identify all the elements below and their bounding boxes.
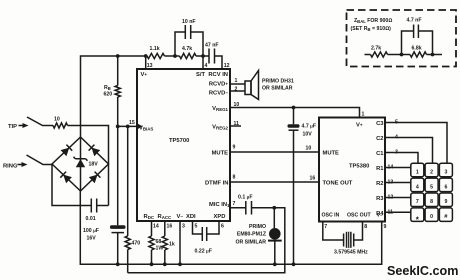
svg-text:RCV IN: RCV IN	[208, 72, 228, 78]
svg-text:MUTE: MUTE	[323, 151, 340, 157]
svg-text:2: 2	[430, 169, 433, 175]
node VREG1 4.7uF tap	[292, 106, 296, 110]
RING terminal label and arrow	[3, 162, 28, 170]
svg-text:MIC IN1: MIC IN1	[209, 202, 230, 208]
capacitor 4.7uF 10V	[288, 108, 317, 265]
svg-text:PRIMO: PRIMO	[249, 224, 266, 230]
svg-text:12: 12	[224, 63, 230, 69]
svg-text:0.22 μF: 0.22 μF	[195, 249, 212, 255]
svg-text:8: 8	[233, 175, 236, 181]
svg-text:R4: R4	[376, 211, 384, 217]
svg-text:ZBAL FOR 900Ω: ZBAL FOR 900Ω	[354, 18, 392, 24]
resistor 1k	[162, 236, 175, 264]
capacitor 47nF	[203, 43, 222, 70]
svg-text:SeekIC.com: SeekIC.com	[387, 264, 458, 278]
node 4.7k/pin4	[201, 54, 205, 58]
svg-text:OR SIMILAR: OR SIMILAR	[235, 240, 266, 246]
resistor 6.8k	[402, 46, 443, 58]
svg-text:1: 1	[235, 78, 238, 84]
svg-text:10 nF: 10 nF	[182, 19, 196, 25]
svg-text:S/T: S/T	[196, 72, 205, 78]
capacitor 10nF parallel loop	[175, 19, 203, 56]
svg-text:RB: RB	[104, 85, 111, 91]
wire RCVD- pin 2	[230, 90, 245, 92]
svg-text:7: 7	[416, 199, 419, 205]
svg-text:10: 10	[306, 146, 312, 152]
svg-text:TONE OUT: TONE OUT	[323, 181, 353, 187]
svg-text:DTMF IN: DTMF IN	[205, 181, 229, 187]
svg-text:14: 14	[153, 224, 159, 230]
wire TIP node to bridge AC right	[68, 126, 109, 165]
pin 4 drop	[202, 56, 204, 69]
svg-text:100 μF: 100 μF	[83, 228, 99, 234]
svg-text:7: 7	[324, 224, 327, 230]
IC U1 TP5700 speakerphone IC	[137, 69, 230, 221]
node RB top	[116, 54, 120, 58]
resistor 68 1W	[149, 236, 163, 264]
svg-text:5: 5	[195, 224, 198, 230]
svg-text:TP5380: TP5380	[349, 164, 369, 170]
wire V+ rail riser from bridge top	[81, 56, 146, 137]
hook switch S1 (TIP)	[27, 117, 53, 126]
svg-text:10V: 10V	[303, 132, 313, 138]
svg-text:15: 15	[129, 120, 135, 126]
svg-text:PRIMO DH31: PRIMO DH31	[262, 79, 294, 85]
svg-text:4: 4	[205, 63, 208, 69]
svg-text:RDC: RDC	[144, 214, 155, 220]
wire pin 3 V- to bus	[179, 222, 181, 265]
node Zbal left	[400, 53, 404, 57]
wire pin 16 to 1k	[164, 222, 166, 237]
pin 13 drop	[145, 56, 147, 69]
svg-text:3: 3	[444, 169, 447, 175]
svg-text:4.7k: 4.7k	[182, 46, 192, 52]
svg-text:9: 9	[444, 199, 447, 205]
capacitor 0.1uF mic coupling	[230, 195, 274, 215]
svg-text:470: 470	[132, 241, 141, 247]
speaker LS1	[245, 71, 294, 100]
Zbal dashed network box	[347, 10, 457, 67]
wire TONE OUT U2 pin 16 to DTMF IN pin 8	[230, 181, 319, 183]
wire VBIAS line pin 15	[118, 125, 137, 127]
node mic top	[272, 206, 276, 210]
node 4.7uF bus	[292, 262, 296, 266]
hook switch S2 (RING)	[27, 155, 53, 165]
svg-text:MUTE: MUTE	[212, 151, 229, 157]
svg-text:6: 6	[444, 184, 447, 190]
svg-text:OR SIMILAR: OR SIMILAR	[262, 86, 293, 92]
svg-text:R3: R3	[376, 196, 384, 202]
svg-text:0: 0	[430, 214, 433, 220]
svg-text:620: 620	[104, 92, 113, 98]
svg-text:10: 10	[54, 117, 60, 123]
svg-text:4.7 μF: 4.7 μF	[302, 124, 317, 130]
resistor RB 620	[104, 56, 121, 126]
svg-text:R1: R1	[376, 166, 384, 172]
svg-text:VREG1: VREG1	[212, 106, 228, 112]
wire pin 14 to 68 ohm	[151, 222, 153, 237]
svg-text:7: 7	[233, 201, 236, 207]
resistor 10 ohm	[53, 117, 68, 129]
IC U2 TP5380 tone dialer	[319, 118, 385, 222]
svg-text:1: 1	[362, 112, 365, 118]
svg-text:TIP: TIP	[8, 124, 17, 130]
svg-text:68: 68	[156, 239, 162, 245]
wire mic bias bus2	[128, 208, 285, 273]
node VBIAS 100uF	[116, 125, 120, 129]
svg-text:5: 5	[430, 184, 433, 190]
wire Zbal left	[365, 54, 371, 56]
capacitor 4.7nF parallel	[402, 18, 433, 55]
resistor 4.7k	[175, 46, 203, 59]
keypad 4x3	[385, 123, 447, 213]
microphone MK1 electret	[235, 208, 281, 264]
svg-text:16V: 16V	[87, 236, 97, 242]
svg-text:13: 13	[147, 63, 153, 69]
svg-text:XPD: XPD	[214, 214, 226, 220]
svg-text:C2: C2	[376, 136, 383, 142]
svg-text:R2: R2	[376, 181, 383, 187]
pin 15 arrow	[137, 123, 143, 129]
svg-text:8: 8	[364, 224, 367, 230]
svg-text:1.1k: 1.1k	[150, 46, 160, 52]
svg-text:0.01: 0.01	[86, 216, 96, 222]
TIP terminal label and arrow	[8, 123, 29, 130]
keypad buttons	[411, 163, 453, 224]
node Zbal right	[431, 53, 435, 57]
svg-text:C3: C3	[376, 121, 384, 127]
wire bridge left corner down to 0.01 line	[52, 165, 91, 206]
svg-text:RING: RING	[3, 164, 18, 170]
svg-text:4: 4	[416, 184, 419, 190]
capacitor 0.22uF XDI-XPD	[193, 222, 220, 255]
crystal Y1 3.579545 MHz	[323, 222, 368, 256]
svg-text:XDI: XDI	[186, 214, 196, 220]
node VBIAS 470	[126, 125, 130, 129]
svg-text:9: 9	[384, 224, 387, 230]
svg-text:8: 8	[430, 199, 433, 205]
U2 pin number labels	[306, 112, 399, 231]
pin 11 stub VREG2	[230, 125, 241, 127]
resistor 1.1k	[147, 46, 175, 59]
svg-text:16: 16	[167, 224, 173, 230]
capacitor 100uF 16V	[83, 126, 126, 264]
svg-text:OSC OUT: OSC OUT	[347, 213, 371, 219]
svg-text:18V: 18V	[89, 162, 99, 168]
wire MUTE U1 pin 9 to U2 pin 10	[230, 151, 319, 153]
diode bridge D1-D4	[52, 137, 109, 191]
svg-text:3: 3	[182, 224, 185, 230]
svg-text:1k: 1k	[169, 242, 175, 248]
svg-text:6: 6	[221, 224, 224, 230]
node 1.1k/10nF	[173, 54, 177, 58]
svg-text:1: 1	[416, 169, 419, 175]
capacitor 0.01	[86, 199, 109, 223]
svg-text:47 nF: 47 nF	[205, 43, 219, 49]
resistor 470	[125, 126, 140, 272]
svg-text:(SET RB = 910Ω): (SET RB = 910Ω)	[351, 26, 392, 32]
svg-text:2.7k: 2.7k	[371, 46, 381, 52]
svg-text:9: 9	[233, 145, 236, 151]
svg-text:RACC: RACC	[158, 214, 173, 220]
zener diode 18V	[74, 137, 99, 191]
svg-text:3.579545 MHz: 3.579545 MHz	[334, 250, 368, 256]
svg-text:0.1 μF: 0.1 μF	[238, 195, 253, 201]
wire bridge AC right down	[108, 164, 110, 206]
wire VREG1 rail to U2 V+	[230, 108, 360, 118]
svg-text:VREG2: VREG2	[212, 125, 228, 131]
svg-text:OSC IN: OSC IN	[322, 213, 340, 219]
U1 pin number labels	[129, 63, 239, 230]
wire RCVD+ pin 1	[230, 83, 245, 85]
svg-text:6.8k: 6.8k	[412, 46, 422, 52]
svg-text:C1: C1	[376, 151, 384, 157]
svg-text:4.7 nF: 4.7 nF	[407, 18, 422, 24]
svg-text:16: 16	[310, 176, 316, 182]
wire bridge bottom to V- bus	[80, 191, 381, 264]
node mic bus	[273, 262, 277, 266]
svg-text:TP5700: TP5700	[169, 138, 189, 144]
node 100uF bus	[116, 262, 120, 266]
svg-text:EM80-PM1Z: EM80-PM1Z	[237, 232, 267, 238]
resistor 2.7k	[371, 46, 402, 58]
